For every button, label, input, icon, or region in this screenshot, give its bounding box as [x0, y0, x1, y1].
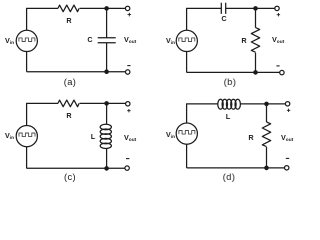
node junction top (b) [253, 6, 258, 11]
plus sign (d) [287, 109, 290, 112]
wire top-left (b) [187, 8, 222, 30]
terminal - (d) [285, 166, 289, 170]
minus sign (d) [286, 157, 289, 159]
label Vout (c) [124, 134, 136, 141]
label R (d) [248, 134, 253, 141]
caption (d) [223, 173, 236, 182]
terminal - (b) [280, 70, 284, 74]
terminal - (a) [126, 70, 130, 74]
node junction top (a) [104, 6, 109, 11]
wire resistor branch top (d) [266, 104, 268, 122]
caption (a) [63, 78, 76, 87]
node junction bottom (c) [104, 166, 109, 171]
caption (b) [224, 78, 237, 87]
terminal - (c) [125, 166, 129, 170]
inductor L (c) [100, 124, 111, 148]
wire inductor branch bottom (c) [106, 148, 108, 168]
node junction bottom (a) [104, 69, 109, 74]
plus sign (c) [127, 109, 130, 112]
caption (c) [63, 173, 75, 182]
wire left-bottom (b) [186, 51, 188, 72]
label Vout (d) [281, 134, 293, 141]
terminal + (b) [275, 6, 279, 10]
wire top-left (c) [27, 103, 58, 125]
source Vin (b) [176, 30, 197, 51]
wire resistor branch bottom (d) [266, 147, 268, 168]
resistor R (c) [58, 100, 79, 107]
label Vout (a) [124, 36, 136, 43]
wire resistor branch top (b) [255, 8, 257, 27]
node junction top (c) [104, 101, 109, 106]
label R (b) [242, 37, 247, 44]
label Vout (b) [272, 36, 284, 43]
wire top-right (a) [80, 7, 126, 9]
inductor L (d) [218, 99, 241, 109]
wire capacitor branch bottom (a) [106, 43, 108, 72]
wire top-right (c) [80, 102, 126, 104]
square wave glyph (b) [179, 38, 195, 42]
label L (c) [91, 133, 95, 140]
wire inductor branch top (c) [106, 103, 108, 124]
label Vin (b) [166, 37, 175, 44]
source Vin (a) [16, 30, 37, 51]
source Vin (d) [176, 123, 197, 144]
wire left-bottom (d) [186, 144, 188, 168]
wire bottom (b) [187, 71, 280, 73]
minus sign (a) [127, 65, 130, 67]
label Vin (d) [166, 131, 175, 138]
resistor R (a) [58, 5, 79, 12]
terminal + (d) [285, 102, 289, 106]
wire top-left (d) [187, 104, 218, 124]
label Vin (a) [5, 37, 14, 44]
label C (b) [221, 15, 226, 22]
wire bottom (a) [27, 71, 126, 73]
capacitor C (b) [221, 3, 225, 14]
square wave glyph (d) [179, 131, 195, 135]
label R (a) [66, 17, 71, 24]
label Vin (c) [5, 132, 14, 139]
label R (c) [66, 112, 71, 119]
wire top-right (d) [240, 103, 285, 105]
wire left-bottom (a) [26, 51, 28, 71]
square wave glyph (c) [19, 133, 35, 137]
wire left-bottom (c) [26, 147, 28, 169]
capacitor C (a) [98, 38, 116, 43]
wire top-right (b) [226, 7, 275, 9]
resistor R (b) [251, 28, 259, 53]
wire capacitor branch top (a) [106, 8, 108, 37]
wire resistor branch bottom (b) [255, 53, 257, 73]
square wave glyph (a) [19, 38, 35, 42]
terminal + (a) [125, 6, 129, 10]
wire bottom (d) [187, 167, 285, 169]
node junction bottom (d) [264, 166, 269, 171]
resistor R (d) [262, 122, 270, 147]
terminal + (c) [126, 102, 130, 106]
source Vin (c) [16, 126, 37, 147]
minus sign (c) [126, 158, 129, 160]
plus sign (b) [277, 13, 280, 16]
wire bottom (c) [27, 167, 125, 169]
node junction top (d) [264, 102, 269, 107]
plus sign (a) [128, 13, 132, 17]
node junction bottom (b) [253, 70, 258, 75]
label C (a) [88, 36, 93, 43]
label L (d) [225, 113, 229, 120]
wire top-left (a) [27, 8, 58, 30]
minus sign (b) [276, 65, 279, 67]
